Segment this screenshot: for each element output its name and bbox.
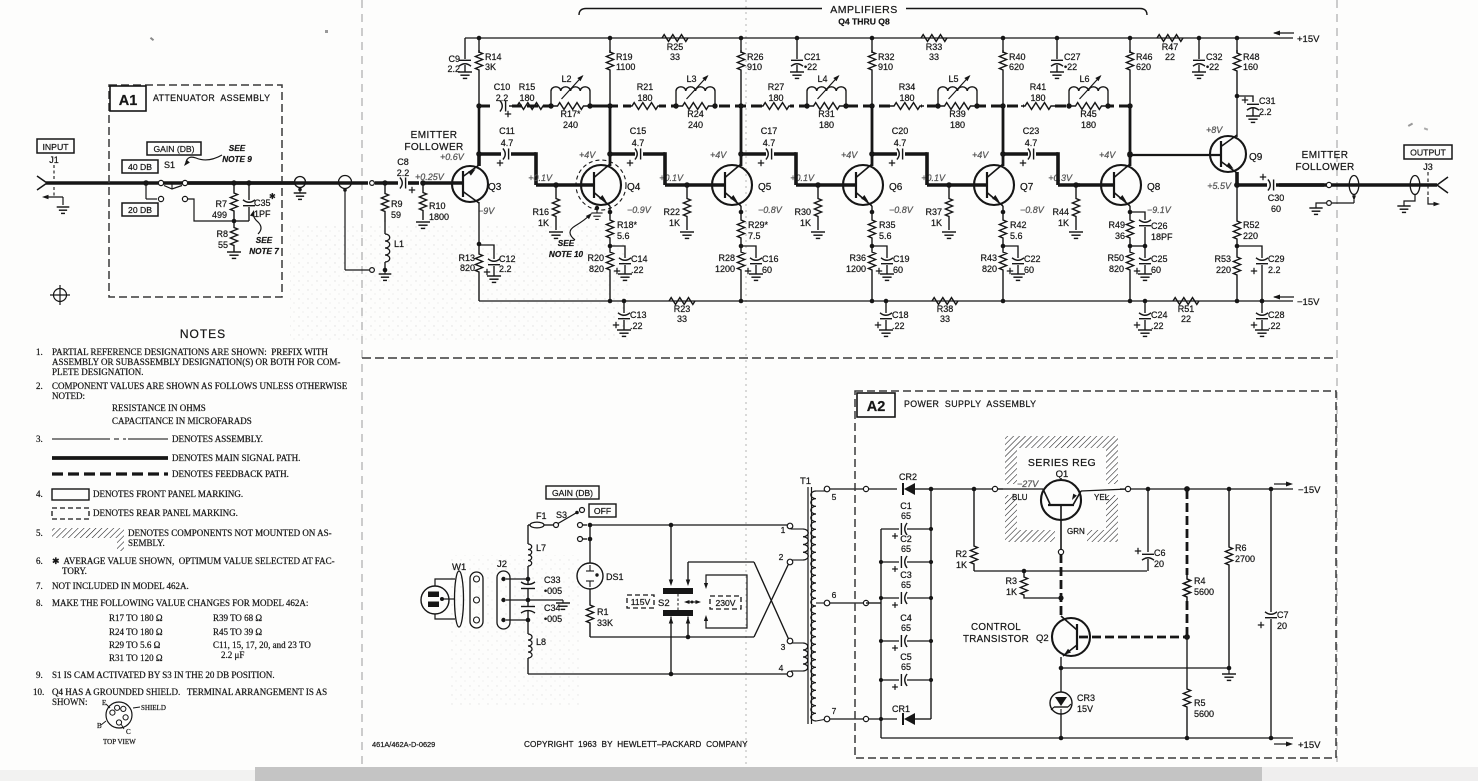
- svg-text:Q4: Q4: [627, 182, 641, 193]
- svg-text:R45 TO 39 Ω: R45 TO 39 Ω: [213, 627, 262, 637]
- svg-text:60: 60: [893, 265, 903, 275]
- svg-text:+0.1V: +0.1V: [921, 173, 946, 183]
- resistor R22 1K: [683, 185, 690, 230]
- wire collector rail Q6: [871, 38, 873, 53]
- svg-text:Q6: Q6: [889, 182, 903, 193]
- node R53 rail: [1235, 299, 1240, 304]
- svg-text:22: 22: [1181, 314, 1191, 324]
- svg-text:.22: .22: [1268, 321, 1281, 331]
- wire J2 pin2: [506, 599, 528, 601]
- svg-text:R34: R34: [899, 82, 916, 92]
- GAIN DB panel box: [147, 142, 201, 155]
- assembly A1 border: [109, 85, 282, 297]
- ground R6: [1228, 668, 1230, 674]
- plug W1: [421, 586, 449, 614]
- svg-text:36: 36: [1115, 231, 1125, 241]
- wire collector Q7: [1002, 106, 1005, 166]
- wire terminal2 cross: [688, 561, 754, 563]
- svg-text:10.: 10.: [33, 687, 44, 697]
- svg-text:BLU: BLU: [1012, 493, 1028, 502]
- +15V rail A2: [881, 737, 1293, 739]
- switch S1: [143, 180, 149, 186]
- svg-text:C14: C14: [631, 254, 648, 264]
- svg-text:R44: R44: [1052, 207, 1069, 217]
- node CR2 out: [929, 487, 934, 492]
- 230V rear panel box: [710, 596, 741, 609]
- node terminal6 bus: [866, 602, 881, 604]
- svg-text:R52: R52: [1243, 220, 1260, 230]
- note 3 main signal sample: [52, 456, 168, 460]
- scan strip faint left: [0, 770, 255, 781]
- node rail bottom Q7: [1001, 299, 1006, 304]
- resistor R50: [1126, 246, 1133, 301]
- svg-text:J2: J2: [497, 559, 507, 570]
- see note 9 arrow: [186, 155, 222, 162]
- resistor R9: [381, 183, 388, 222]
- svg-text:✱: ✱: [269, 192, 276, 201]
- svg-text:C7: C7: [1277, 610, 1289, 620]
- svg-text:2: 2: [779, 552, 784, 562]
- svg-text:180: 180: [950, 120, 965, 130]
- svg-text:Q9: Q9: [1249, 152, 1263, 163]
- open circle GRN: [1058, 549, 1063, 554]
- resistor R25: [662, 35, 688, 42]
- svg-text:R17 TO 180 Ω: R17 TO 180 Ω: [109, 613, 163, 623]
- 20 DB panel box: [122, 203, 158, 216]
- output feedthrough 1: [1349, 176, 1359, 195]
- node feedback Q6: [869, 103, 874, 108]
- svg-text:C9: C9: [448, 54, 460, 64]
- node C34 bottom: [526, 618, 531, 623]
- transformer T1 secondary: [811, 491, 816, 721]
- node L2 right: [587, 103, 592, 108]
- svg-text:DENOTES ASSEMBLY.: DENOTES ASSEMBLY.: [172, 434, 263, 444]
- feedback dashed up to -15V: [1186, 490, 1189, 575]
- svg-text:DENOTES COMPONENTS NOT MOUNTED: DENOTES COMPONENTS NOT MOUNTED ON AS-: [128, 528, 332, 538]
- resistor R42: [999, 212, 1006, 246]
- resistor R31: [807, 103, 846, 110]
- resistor R26: [737, 50, 744, 106]
- node C32: [1197, 36, 1202, 41]
- svg-text:65: 65: [901, 662, 911, 672]
- svg-text:60: 60: [1024, 265, 1034, 275]
- node feedback -15V: [1184, 486, 1190, 492]
- transistor Q2: [1052, 618, 1090, 656]
- node base Q6: [815, 182, 821, 188]
- svg-text:60: 60: [1151, 265, 1161, 275]
- resistor R10: [419, 183, 426, 220]
- svg-text:OUTPUT: OUTPUT: [1410, 148, 1446, 158]
- switch S2 plate bottom: [663, 610, 693, 616]
- node coupling Q6: [869, 151, 875, 157]
- node L3 right: [712, 103, 717, 108]
- svg-text:C19: C19: [893, 254, 910, 264]
- capacitor C24: [1144, 301, 1146, 313]
- node L5 left: [935, 103, 940, 108]
- svg-text:2.2: 2.2: [447, 64, 460, 74]
- wire S2 top arrow: [670, 525, 672, 583]
- svg-text:180: 180: [768, 93, 783, 103]
- transistor Q6: [843, 165, 883, 205]
- svg-text:R29 TO 5.6 Ω: R29 TO 5.6 Ω: [109, 640, 161, 650]
- svg-text:DENOTES REAR PANEL MARKING.: DENOTES REAR PANEL MARKING.: [93, 508, 238, 518]
- capacitor C20: [872, 152, 897, 156]
- wire Q3 collector down: [478, 202, 480, 244]
- wire S1 to 20db contact: [145, 183, 147, 199]
- svg-text:R25: R25: [667, 42, 684, 52]
- svg-text:1200: 1200: [715, 264, 735, 274]
- svg-text:•22: •22: [804, 62, 817, 72]
- svg-text:.22: .22: [892, 321, 905, 331]
- inductor L4: [806, 91, 808, 106]
- bus capacitor bank left: [880, 529, 882, 719]
- fold line right: [1336, 0, 1338, 762]
- capacitor C33: [521, 582, 535, 584]
- transistor Q7: [974, 165, 1014, 205]
- svg-text:1K: 1K: [1058, 218, 1069, 228]
- svg-text:TORY.: TORY.: [62, 566, 87, 576]
- wire line neutral: [528, 673, 788, 675]
- svg-text:820: 820: [589, 264, 604, 274]
- svg-text:4.7: 4.7: [1025, 138, 1038, 148]
- node R48 rail: [1235, 36, 1240, 41]
- svg-text:R16: R16: [532, 207, 549, 217]
- wire collector rail Q5: [740, 38, 742, 53]
- wire collector rail Q8: [1129, 38, 1131, 53]
- svg-text:PARTIAL REFERENCE DESIGNATIONS: PARTIAL REFERENCE DESIGNATIONS ARE SHOWN…: [52, 347, 328, 357]
- wire terminal 6 to A2: [830, 602, 863, 604]
- svg-text:R13: R13: [458, 253, 475, 263]
- switch S2 arrows: [686, 601, 699, 603]
- svg-text:C3: C3: [900, 570, 912, 580]
- capacitor C31: [1237, 96, 1253, 102]
- svg-text:115V: 115V: [631, 597, 651, 607]
- wire S2 bottom arrows: [670, 617, 672, 675]
- shield ground Q4: [595, 206, 599, 210]
- node S2 bottom left: [669, 672, 674, 677]
- inductor L3: [675, 91, 677, 106]
- resistor R1: [589, 589, 591, 600]
- svg-text:R43: R43: [980, 253, 997, 263]
- svg-text:5.6: 5.6: [617, 231, 630, 241]
- 115V rear panel box: [627, 595, 654, 608]
- svg-text:CAPACITANCE IN MICROFARADS: CAPACITANCE IN MICROFARADS: [112, 416, 252, 426]
- wire terminal 5 to A2: [830, 488, 863, 490]
- node S3 on2: [588, 537, 593, 542]
- node C21: [795, 36, 800, 41]
- node base Q8: [1073, 182, 1079, 188]
- svg-text:R32: R32: [878, 52, 895, 62]
- transistor Q9: [1210, 136, 1246, 172]
- svg-text:R24: R24: [687, 109, 704, 119]
- svg-text:C12: C12: [499, 254, 516, 264]
- svg-text:1K: 1K: [538, 218, 549, 228]
- node base Q4: [553, 182, 559, 188]
- svg-text:C11, 15, 17, 20, and 23 TO: C11, 15, 17, 20, and 23 TO: [213, 640, 311, 650]
- capacitor C23: [1003, 152, 1028, 156]
- svg-text:1: 1: [781, 525, 786, 535]
- svg-text:RESISTANCE IN OHMS: RESISTANCE IN OHMS: [112, 403, 206, 413]
- connector J2: [497, 571, 510, 629]
- wire R2 C6 line: [974, 570, 1147, 572]
- svg-text:R35: R35: [879, 220, 896, 230]
- resistor R34: [890, 103, 924, 110]
- terminal 4: [787, 671, 793, 677]
- wire C15 to next base: [663, 152, 667, 185]
- svg-text:R22: R22: [663, 207, 680, 217]
- node C31: [1235, 94, 1240, 99]
- node rail bottom Q6: [870, 299, 875, 304]
- node C2 left: [879, 560, 883, 564]
- svg-text:240: 240: [688, 120, 703, 130]
- svg-text:.22: .22: [1151, 321, 1164, 331]
- svg-text:+0.1V: +0.1V: [528, 173, 553, 183]
- svg-text:820: 820: [982, 264, 997, 274]
- svg-text:C15: C15: [630, 126, 647, 136]
- svg-text:+15V: +15V: [1298, 740, 1321, 751]
- capacitor C7: [1269, 487, 1274, 492]
- svg-text:L3: L3: [686, 74, 696, 84]
- feedback dashed GRN to base: [1060, 554, 1063, 616]
- node L6 left: [1066, 103, 1071, 108]
- registration mark: [54, 289, 67, 302]
- 230V jumper loop: [706, 575, 747, 628]
- transistor Q3: [477, 154, 481, 166]
- note 3 feedback sample: [52, 472, 168, 475]
- wire emitter to R6 ground: [1061, 667, 1229, 669]
- node S2 bottom right: [686, 635, 691, 640]
- capacitor C12: [479, 245, 494, 259]
- node C1 right: [929, 527, 933, 531]
- svg-text:DENOTES MAIN SIGNAL PATH.: DENOTES MAIN SIGNAL PATH.: [172, 453, 300, 463]
- capacitor C13: [623, 301, 625, 313]
- fuse F1: [528, 524, 530, 526]
- svg-text:9.: 9.: [36, 670, 43, 680]
- svg-text:NOTED:: NOTED:: [52, 391, 85, 401]
- svg-text:33: 33: [677, 314, 687, 324]
- resistor R14: [475, 50, 482, 106]
- wire base Q6: [818, 183, 856, 187]
- svg-text:R23: R23: [674, 304, 691, 314]
- svg-text:4.: 4.: [36, 489, 43, 499]
- resistor R21: [628, 103, 662, 110]
- svg-text:2.: 2.: [36, 381, 43, 391]
- wire +15V rail start: [880, 719, 882, 738]
- feedback path line: [479, 104, 1130, 107]
- node C33 bottom: [526, 598, 531, 603]
- svg-text:4.7: 4.7: [763, 138, 776, 148]
- svg-text:Q7: Q7: [1020, 182, 1034, 193]
- svg-text:1.: 1.: [36, 347, 43, 357]
- svg-text:C31: C31: [1259, 96, 1276, 106]
- wire base Q4: [556, 183, 594, 187]
- svg-text:C10: C10: [494, 82, 511, 92]
- node R5 rail: [1185, 736, 1190, 741]
- svg-text:5.6: 5.6: [1010, 231, 1023, 241]
- wire C11 to Q4 base: [534, 152, 538, 185]
- svg-text:J1: J1: [49, 155, 59, 165]
- svg-text:L2: L2: [561, 74, 571, 84]
- svg-text:180: 180: [1030, 93, 1045, 103]
- svg-text:FOLLOWER: FOLLOWER: [1295, 162, 1354, 173]
- svg-text:+5.5V: +5.5V: [1207, 181, 1232, 191]
- svg-text:Q2: Q2: [1036, 633, 1049, 644]
- node R2 top: [972, 487, 977, 492]
- node C3 right: [929, 596, 933, 600]
- +15V label A2: [1274, 743, 1290, 745]
- resistor R29: [737, 212, 744, 246]
- node C5 left: [879, 678, 883, 682]
- svg-text:8.: 8.: [36, 598, 43, 608]
- node emitter mid Q4: [608, 244, 613, 249]
- series regulator hatched box: [1005, 436, 1118, 542]
- capacitor C30: [1237, 183, 1267, 187]
- capacitor C29: [1237, 246, 1262, 258]
- diode CR2: [902, 483, 904, 495]
- note 10 socket drawing: [106, 702, 132, 728]
- svg-text:820: 820: [1109, 264, 1124, 274]
- svg-text:E: E: [102, 699, 106, 707]
- capacitor C28: [1261, 301, 1263, 313]
- svg-text:SEMBLY.: SEMBLY.: [128, 538, 165, 548]
- svg-text:R48: R48: [1243, 52, 1260, 62]
- svg-text:Q4 HAS A GROUNDED SHIELD. TE: Q4 HAS A GROUNDED SHIELD. TERMINAL ARRAN…: [52, 687, 327, 697]
- open circle A2 in 5: [863, 486, 868, 491]
- capacitor C32: [1198, 38, 1200, 59]
- svg-text:C34: C34: [544, 603, 561, 613]
- node C7 rail: [1269, 736, 1274, 741]
- svg-text:+4V: +4V: [1099, 150, 1116, 160]
- svg-text:A2: A2: [867, 399, 886, 415]
- ground R37: [942, 231, 956, 233]
- inductor L5: [937, 91, 939, 106]
- node C27: [1055, 36, 1060, 41]
- wire C8 to Q3 base: [423, 181, 463, 185]
- resistor R35: [868, 212, 875, 246]
- svg-text:OFF: OFF: [594, 506, 611, 516]
- svg-text:+4V: +4V: [841, 150, 858, 160]
- svg-text:C1: C1: [900, 501, 912, 511]
- svg-text:220: 220: [1216, 265, 1231, 275]
- svg-text:+4V: +4V: [579, 150, 596, 160]
- node Q2 collector end: [1184, 634, 1190, 640]
- svg-text:7: 7: [832, 706, 837, 716]
- fold line center: [745, 0, 747, 781]
- resistor R39: [938, 103, 977, 110]
- svg-text:•005: •005: [544, 614, 562, 624]
- svg-text:R17*: R17*: [560, 109, 581, 119]
- wire terminal3 cross: [754, 563, 789, 637]
- svg-text:R38: R38: [937, 304, 954, 314]
- svg-text:33: 33: [929, 52, 939, 62]
- terminal 3: [787, 638, 793, 644]
- svg-text:C6: C6: [1154, 548, 1166, 558]
- open circle A2 in 7: [863, 716, 868, 721]
- svg-text:+0.6V: +0.6V: [440, 152, 465, 162]
- svg-text:2700: 2700: [1235, 554, 1255, 564]
- node R3 join: [1058, 595, 1063, 600]
- resistor R17*: [551, 103, 590, 110]
- svg-text:L7: L7: [536, 543, 546, 553]
- svg-text:COMPONENT VALUES ARE SHOWN AS: COMPONENT VALUES ARE SHOWN AS FOLLOWS UN…: [52, 381, 348, 391]
- svg-text:820: 820: [460, 263, 475, 273]
- svg-text:C28: C28: [1268, 310, 1285, 320]
- resistor R3: [1020, 571, 1027, 596]
- node Q3 collector bottom: [477, 242, 482, 247]
- svg-text:R1: R1: [597, 607, 609, 617]
- node L4 right: [843, 103, 848, 108]
- svg-text:7.: 7.: [36, 581, 43, 591]
- inductor L6: [1068, 91, 1070, 106]
- svg-text:3.: 3.: [36, 434, 43, 444]
- svg-text:+4V: +4V: [710, 150, 727, 160]
- wire CR3 to +15V: [1060, 714, 1062, 738]
- capacitor C26: [1130, 212, 1145, 220]
- svg-text:TOP VIEW: TOP VIEW: [103, 738, 136, 746]
- capacitor C3: [881, 597, 899, 599]
- transistor Q5: [712, 165, 752, 205]
- resistor R7: [231, 180, 236, 185]
- svg-text:65: 65: [901, 544, 911, 554]
- svg-text:1K: 1K: [956, 560, 967, 570]
- lamp DS1: [589, 539, 591, 563]
- svg-text:EMITTER: EMITTER: [1302, 150, 1349, 161]
- -15V label bottom right of amplifier: [1274, 296, 1294, 298]
- wire terminal 7 to A2: [830, 718, 863, 720]
- capacitor C35: [246, 180, 251, 185]
- svg-text:180: 180: [519, 93, 534, 103]
- resistor R38: [932, 298, 958, 305]
- wire Q9 emitter: [1235, 172, 1239, 185]
- svg-text:R31 TO 120 Ω: R31 TO 120 Ω: [109, 653, 163, 663]
- svg-text:C20: C20: [892, 126, 909, 136]
- switch S2 plate top: [663, 588, 693, 594]
- resistor R6: [1227, 487, 1232, 492]
- svg-text:R21: R21: [637, 82, 654, 92]
- svg-text:✱ AVERAGE VALUE SHOWN, OPTIM: ✱ AVERAGE VALUE SHOWN, OPTIMUM VALUE SEL…: [52, 556, 335, 566]
- svg-text:620: 620: [1136, 62, 1151, 72]
- svg-text:20 DB: 20 DB: [128, 205, 152, 215]
- svg-text:1K: 1K: [1006, 587, 1017, 597]
- svg-text:T1: T1: [800, 476, 811, 487]
- transformer T1 primary 1-2: [803, 529, 808, 560]
- svg-text:2.2: 2.2: [499, 264, 512, 274]
- capacitor C19: [872, 246, 887, 258]
- +15V label top right: [1274, 32, 1294, 34]
- capacitor C5: [881, 679, 899, 681]
- svg-text:DENOTES FEEDBACK PATH.: DENOTES FEEDBACK PATH.: [172, 469, 289, 479]
- inductor L8: [527, 620, 529, 634]
- wire input line: [46, 181, 295, 185]
- wire A1 main: [188, 181, 295, 185]
- svg-text:4.7: 4.7: [632, 138, 645, 148]
- node C5 right: [929, 678, 933, 682]
- svg-text:1PF: 1PF: [254, 209, 271, 219]
- svg-text:GAIN (DB): GAIN (DB): [552, 488, 593, 498]
- svg-text:3K: 3K: [485, 62, 496, 72]
- resistor R36: [868, 246, 875, 301]
- transistor Q4: [581, 165, 621, 205]
- svg-text:C24: C24: [1151, 310, 1168, 320]
- OUTPUT panel box: [1404, 145, 1452, 159]
- svg-text:230V: 230V: [715, 598, 735, 608]
- terminal 7: [816, 719, 827, 721]
- node rail Q7: [1001, 36, 1006, 41]
- svg-text:R50: R50: [1107, 253, 1124, 263]
- svg-text:R42: R42: [1010, 220, 1027, 230]
- node C4 right: [929, 639, 933, 643]
- svg-text:R24 TO 180 Ω: R24 TO 180 Ω: [109, 627, 163, 637]
